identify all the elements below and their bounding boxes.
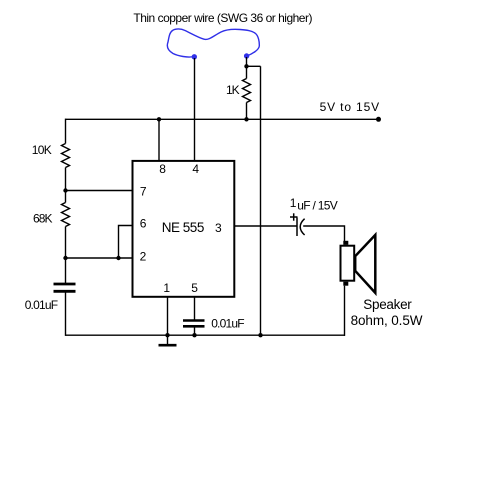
wire: node A to pin 7: [66, 190, 133, 192]
node A: 10K/68K junction: [63, 188, 67, 192]
svg-text:3: 3: [215, 221, 222, 235]
wire: speaker bottom to ground rail: [344, 286, 346, 336]
node: supply terminal: [376, 117, 381, 122]
node: left coil terminal (blue dot): [192, 54, 197, 59]
wire: C3 to speaker top: [303, 226, 344, 241]
wire: pin 1 to ground rail: [167, 298, 169, 336]
node: right coil terminal (blue dot): [244, 53, 249, 58]
svg-text:0.01uF: 0.01uF: [25, 298, 58, 312]
capacitor C2 0.01uF: [183, 321, 205, 327]
node: pin6 branch junction: [116, 256, 120, 260]
node: 1K bottom junction on V+ rail: [244, 117, 248, 121]
inductor L1 thin copper wire (blue freehand loop): [167, 29, 259, 57]
svg-text:1: 1: [290, 196, 297, 210]
resistor R3 68K: [62, 203, 70, 227]
wire: 10K to node A: [65, 168, 67, 191]
svg-text:NE 555: NE 555: [162, 220, 204, 235]
node: 1K top junction: [244, 64, 248, 68]
svg-text:2: 2: [140, 249, 147, 263]
svg-text:7: 7: [140, 184, 147, 198]
wire: left rail top segment: [65, 119, 67, 144]
wire: right vertical drop to ground rail: [260, 66, 262, 336]
wire: pin 5 to C2: [194, 298, 196, 320]
label: + polarity mark: [290, 213, 298, 220]
node: C2 ground junction: [192, 333, 196, 337]
svg-text:4: 4: [192, 162, 199, 176]
wire: node B to pin 2: [66, 257, 133, 259]
svg-text:1K: 1K: [226, 83, 240, 97]
capacitor C3 1uF/15V (polarized): [297, 218, 305, 237]
node: pin1 ground junction: [165, 333, 169, 337]
wire: V+ top rail: [66, 118, 379, 120]
wire: pin 6 branch: [119, 226, 133, 259]
wire: 68K to node B: [65, 227, 67, 259]
svg-text:5V to 15V: 5V to 15V: [320, 100, 380, 114]
svg-text:5: 5: [191, 281, 198, 295]
svg-text:Thin copper wire (SWG 36 or hi: Thin copper wire (SWG 36 or higher): [133, 11, 312, 25]
op-amp U1 NE 555 timer body: [133, 161, 235, 297]
resistor R2 10K: [62, 144, 70, 168]
wire: node B down to C1: [65, 258, 67, 283]
speaker LS1: [341, 235, 376, 293]
node: pin 8 junction on V+ rail: [157, 117, 161, 121]
capacitor C1 0.01uF: [54, 284, 76, 291]
wire: ground bottom rail: [66, 334, 346, 336]
wire: node A to 68K: [65, 191, 67, 203]
wire: left coil terminal down to pin 4: [194, 58, 196, 160]
svg-text:Speaker: Speaker: [363, 297, 412, 312]
ground symbol: [159, 335, 177, 345]
resistor R1 1K: [243, 66, 251, 119]
svg-text:6: 6: [140, 217, 147, 231]
wire: C1 to ground rail: [65, 293, 67, 336]
svg-text:10K: 10K: [32, 143, 52, 157]
label: 1uF / 15V: [290, 196, 338, 212]
svg-text:0.01uF: 0.01uF: [211, 317, 244, 331]
wire: C2 to ground rail: [194, 328, 196, 336]
wire: pin 3 output to C3: [235, 225, 297, 227]
wire: pin 8 to V+ rail: [158, 119, 160, 161]
node B: 68K/C1 junction: [63, 256, 67, 260]
svg-text:1: 1: [163, 281, 170, 295]
svg-text:8: 8: [159, 162, 166, 176]
svg-text:68K: 68K: [33, 211, 53, 225]
wire: right coil terminal to junction: [246, 57, 248, 66]
svg-text:uF / 15V: uF / 15V: [297, 198, 337, 212]
node: right drop ground junction: [258, 333, 262, 337]
wire: jog from 1K top junction to right drop: [247, 65, 261, 67]
svg-text:8ohm, 0.5W: 8ohm, 0.5W: [351, 313, 423, 328]
